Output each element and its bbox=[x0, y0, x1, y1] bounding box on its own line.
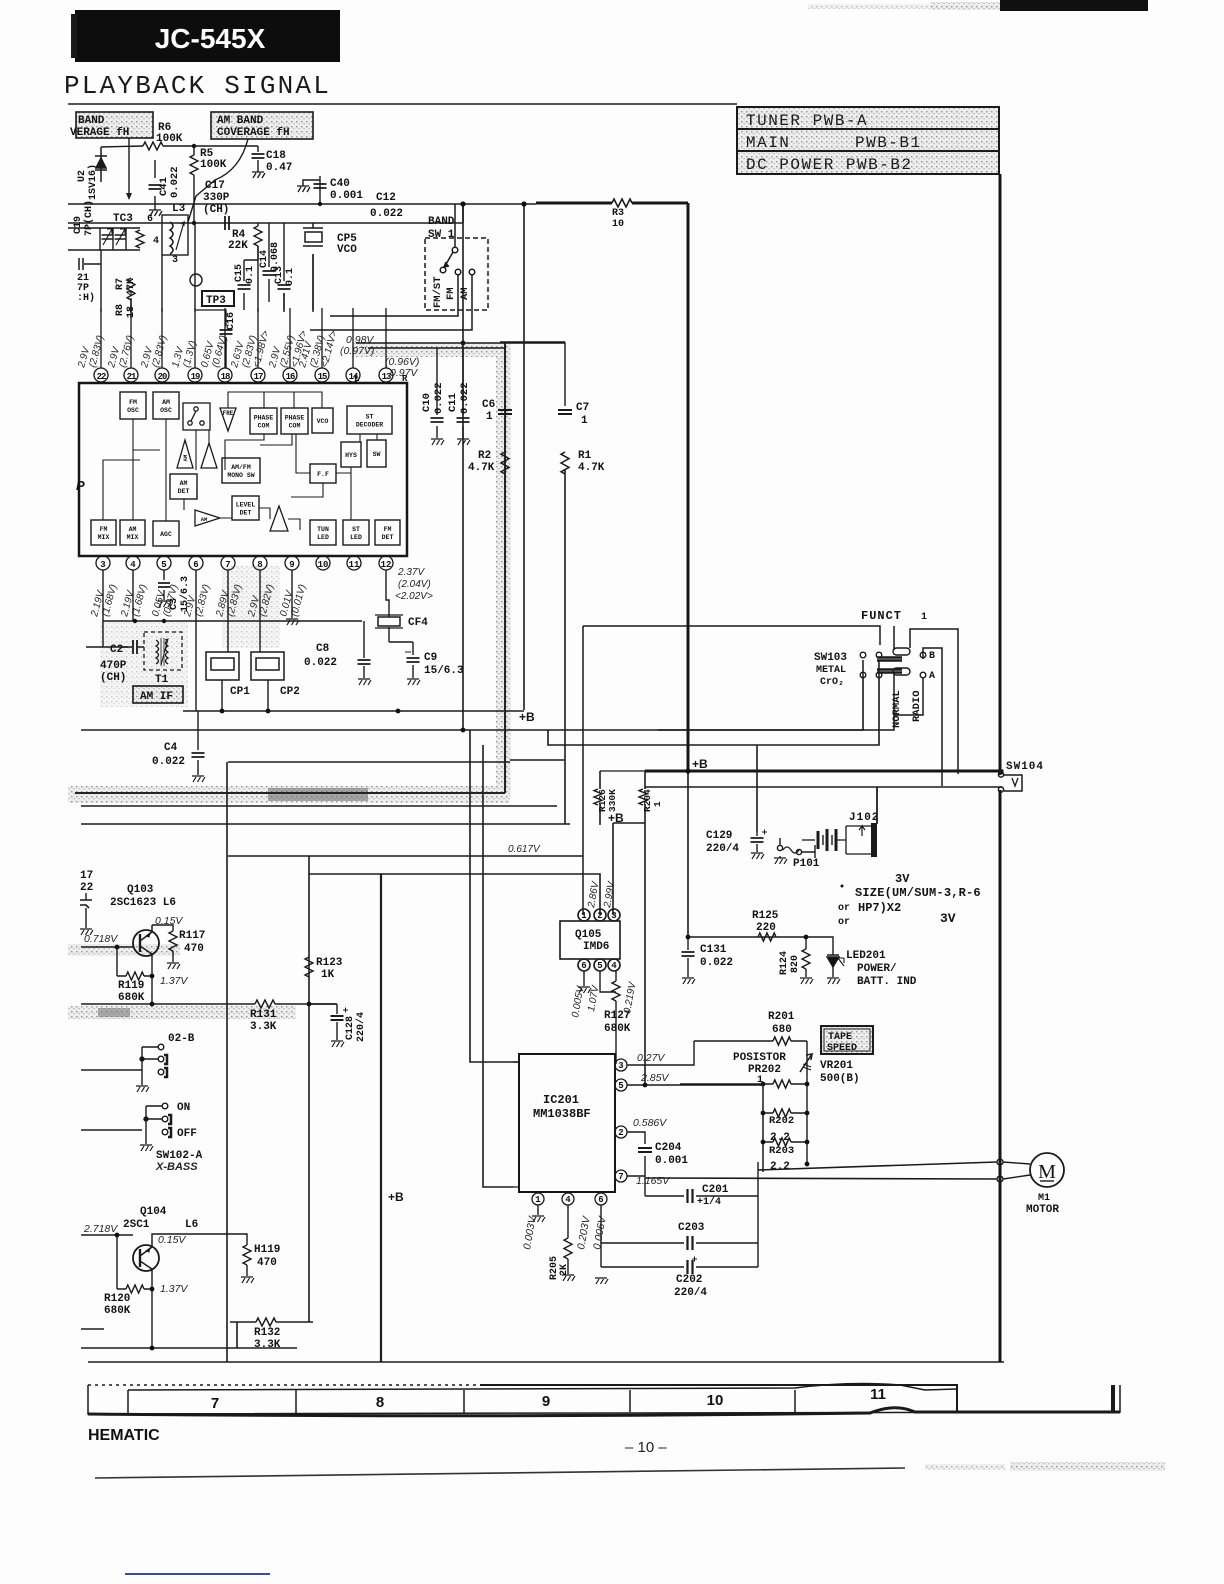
capacitor C3 15/6.3 bbox=[158, 570, 191, 612]
svg-text:4: 4 bbox=[611, 961, 617, 971]
IC pins bottom bbox=[96, 556, 393, 570]
svg-text:0.15V: 0.15V bbox=[158, 1234, 186, 1246]
svg-text:J102: J102 bbox=[849, 812, 879, 824]
svg-text:100K: 100K bbox=[156, 133, 183, 145]
svg-text:POWER/: POWER/ bbox=[857, 963, 897, 975]
capacitor C16 bbox=[196, 310, 237, 350]
svg-text:1: 1 bbox=[921, 612, 927, 623]
svg-text::H): :H) bbox=[77, 292, 95, 304]
svg-text:330P: 330P bbox=[203, 192, 230, 204]
resistor R202 2.2 bbox=[763, 1109, 807, 1144]
svg-text:Q103: Q103 bbox=[127, 884, 154, 896]
svg-text:15/6.3: 15/6.3 bbox=[424, 665, 464, 677]
svg-text:100K: 100K bbox=[200, 159, 227, 171]
svg-text:220/4: 220/4 bbox=[706, 843, 739, 855]
capacitor C41 0.022 bbox=[149, 160, 182, 216]
svg-text:680K: 680K bbox=[604, 1023, 631, 1035]
svg-text:470P: 470P bbox=[100, 660, 127, 672]
svg-text:PHASE: PHASE bbox=[285, 415, 305, 422]
svg-text:FM/ST: FM/ST bbox=[432, 276, 444, 308]
svg-text:C4: C4 bbox=[164, 742, 178, 754]
VCO block bbox=[312, 408, 333, 433]
pin9 ground bbox=[286, 570, 299, 625]
svg-text:16: 16 bbox=[286, 372, 295, 382]
svg-text:10: 10 bbox=[612, 219, 624, 230]
Q105 pin nets bbox=[578, 971, 616, 993]
svg-text:IC201: IC201 bbox=[543, 1093, 579, 1107]
svg-text:220: 220 bbox=[756, 922, 776, 934]
svg-text:C19: C19 bbox=[73, 216, 84, 234]
svg-text:19: 19 bbox=[191, 372, 200, 382]
highlight stipple bands bbox=[68, 343, 511, 1019]
svg-text:C13: C13 bbox=[274, 266, 285, 284]
svg-text:LED201: LED201 bbox=[846, 950, 886, 962]
svg-text:FRE: FRE bbox=[223, 410, 234, 417]
svg-text:1: 1 bbox=[486, 411, 493, 423]
svg-text:6: 6 bbox=[147, 214, 153, 225]
svg-text:4.7K: 4.7K bbox=[578, 462, 605, 474]
svg-text:3: 3 bbox=[100, 560, 105, 570]
svg-text:0.022: 0.022 bbox=[152, 756, 185, 768]
svg-text:9: 9 bbox=[542, 1393, 550, 1410]
svg-text:R132: R132 bbox=[254, 1327, 280, 1339]
svg-text:U2: U2 bbox=[77, 170, 88, 182]
svg-text:AM: AM bbox=[459, 287, 471, 300]
hybrid Q105 IMD6 bbox=[560, 909, 620, 971]
svg-text:0.97V: 0.97V bbox=[390, 367, 418, 379]
svg-text:TUNER PWB-A: TUNER PWB-A bbox=[746, 112, 868, 130]
svg-text:R1: R1 bbox=[578, 450, 592, 462]
svg-text:COM: COM bbox=[258, 423, 270, 430]
svg-text:A: A bbox=[929, 671, 935, 682]
svg-text:C202: C202 bbox=[676, 1274, 702, 1286]
svg-text:0.203V: 0.203V bbox=[575, 1215, 593, 1251]
ceramic filter CP1 bbox=[206, 652, 250, 698]
thick wires bbox=[536, 174, 1002, 1362]
resistor R118 470 bbox=[152, 1234, 280, 1283]
svg-text:470: 470 bbox=[257, 1257, 277, 1269]
svg-text:7: 7 bbox=[211, 1395, 219, 1412]
svg-text:LED: LED bbox=[350, 534, 362, 541]
svg-text:+B: +B bbox=[692, 757, 708, 771]
det triangle bbox=[270, 506, 288, 531]
svg-text:C9: C9 bbox=[424, 652, 437, 664]
svg-text:22: 22 bbox=[80, 882, 93, 894]
svg-text:BAND: BAND bbox=[428, 216, 455, 228]
AM IF tag bbox=[133, 686, 183, 703]
svg-text:R203: R203 bbox=[769, 1145, 794, 1157]
AM MIX block bbox=[120, 520, 145, 545]
svg-text:17: 17 bbox=[80, 870, 93, 882]
variable resistor VR201 500(B) bbox=[800, 1041, 860, 1164]
svg-text:L6: L6 bbox=[185, 1219, 198, 1231]
svg-text:8: 8 bbox=[257, 560, 262, 570]
svg-text:COVERAGE fH: COVERAGE fH bbox=[217, 127, 290, 139]
svg-text:R2: R2 bbox=[478, 450, 491, 462]
svg-text:Q105: Q105 bbox=[575, 929, 602, 941]
resistor R125 220 bbox=[752, 910, 779, 941]
svg-text:(2.76V): (2.76V) bbox=[117, 334, 136, 369]
svg-text:C201: C201 bbox=[702, 1184, 729, 1196]
svg-text:P: P bbox=[76, 478, 85, 493]
svg-text:3V: 3V bbox=[940, 911, 956, 926]
test point TP3 bbox=[190, 274, 234, 307]
capacitor C131 0.022 bbox=[682, 937, 734, 984]
svg-text:220/4: 220/4 bbox=[674, 1287, 707, 1299]
svg-text:8: 8 bbox=[376, 1394, 384, 1411]
svg-text:C8: C8 bbox=[316, 643, 330, 655]
IC internal wiring bbox=[103, 392, 377, 530]
plug P101 bbox=[774, 838, 820, 870]
AM/FM MONO SW block bbox=[222, 458, 260, 483]
resistor R205 2K bbox=[549, 1238, 572, 1280]
svg-text:BAND: BAND bbox=[78, 115, 105, 127]
svg-text:(0.97V): (0.97V) bbox=[340, 345, 374, 357]
svg-text:TP3: TP3 bbox=[206, 295, 226, 307]
diode D2 1SV16 bbox=[77, 147, 107, 200]
voltage row top (0.98V etc) bbox=[340, 334, 419, 379]
HYS block bbox=[341, 442, 361, 467]
svg-text:NORMAL: NORMAL bbox=[891, 690, 903, 728]
resistor R124 820 bbox=[779, 949, 813, 984]
svg-text:TAPE: TAPE bbox=[828, 1032, 852, 1043]
svg-text:22: 22 bbox=[97, 372, 106, 382]
capacitor C204 0.001 bbox=[638, 1142, 688, 1167]
svg-text:0.022: 0.022 bbox=[304, 657, 337, 669]
svg-text:HEMATIC: HEMATIC bbox=[88, 1427, 160, 1444]
svg-text:R204: R204 bbox=[642, 789, 653, 812]
svg-text:AGC: AGC bbox=[160, 531, 172, 538]
svg-text:5: 5 bbox=[161, 560, 166, 570]
svg-text:FUNCT: FUNCT bbox=[861, 609, 902, 623]
LED201 bbox=[827, 950, 917, 988]
resistor R131 3.3K bbox=[250, 1000, 277, 1033]
resistor R120 680K bbox=[104, 1235, 152, 1348]
resistor R5 100K bbox=[190, 146, 227, 223]
capacitor C128 220/4 bbox=[309, 1004, 367, 1047]
svg-text:AM: AM bbox=[182, 454, 189, 461]
resonator CF4 bbox=[375, 615, 428, 629]
ST LED block bbox=[343, 520, 369, 545]
svg-text:+B: +B bbox=[519, 710, 535, 724]
svg-text:C12: C12 bbox=[376, 192, 396, 204]
svg-text:SPEED: SPEED bbox=[827, 1043, 857, 1054]
wire to C131 node bbox=[688, 937, 833, 952]
svg-text:AM BAND: AM BAND bbox=[217, 115, 264, 127]
capacitor C201 1/4 bbox=[688, 1184, 729, 1208]
resistor R127 680K bbox=[604, 981, 631, 1064]
svg-text:VR201: VR201 bbox=[820, 1060, 853, 1072]
svg-text:VCO: VCO bbox=[317, 418, 329, 425]
svg-text:TUN: TUN bbox=[317, 526, 329, 533]
TUN LED block bbox=[310, 520, 336, 545]
svg-text:17: 17 bbox=[254, 372, 263, 382]
resistor R123 1K bbox=[305, 957, 343, 981]
svg-text:(CH): (CH) bbox=[203, 204, 229, 216]
svg-text:HP7)X2: HP7)X2 bbox=[858, 901, 901, 915]
svg-text:R120: R120 bbox=[104, 1293, 130, 1305]
svg-text:C128: C128 bbox=[345, 1016, 356, 1040]
svg-text:0.27V: 0.27V bbox=[637, 1052, 665, 1064]
svg-text:(1.3V): (1.3V) bbox=[181, 340, 199, 369]
svg-text:LEVEL: LEVEL bbox=[236, 502, 256, 509]
svg-text:4: 4 bbox=[565, 1195, 571, 1205]
voltage labels bottom row bbox=[89, 567, 433, 619]
svg-text:0.718V: 0.718V bbox=[84, 933, 118, 945]
svg-text:C14: C14 bbox=[259, 250, 270, 268]
F.F block bbox=[310, 464, 336, 483]
capacitors C10 C11 bbox=[421, 348, 471, 445]
svg-text:R117: R117 bbox=[179, 930, 205, 942]
blue pen mark bbox=[125, 1573, 270, 1575]
svg-text:C15: C15 bbox=[234, 264, 245, 282]
svg-text:1.37V: 1.37V bbox=[160, 1283, 188, 1295]
svg-text:OFF: OFF bbox=[177, 1128, 197, 1140]
svg-text:P101: P101 bbox=[793, 858, 820, 870]
highlight box dark border bbox=[75, 343, 505, 793]
svg-text:R201: R201 bbox=[768, 1011, 795, 1023]
resistor R119 680K bbox=[117, 947, 152, 1004]
capacitor C7 1 bbox=[356, 342, 589, 427]
svg-text:or: or bbox=[838, 903, 850, 914]
svg-text:SW 1: SW 1 bbox=[428, 229, 455, 241]
svg-text:6: 6 bbox=[193, 560, 198, 570]
svg-text:VCO: VCO bbox=[337, 244, 357, 256]
svg-text:1SV16): 1SV16) bbox=[87, 164, 99, 200]
svg-text:2: 2 bbox=[618, 1128, 623, 1138]
capacitor C4 0.022 bbox=[152, 711, 205, 782]
svg-text:MM1038BF: MM1038BF bbox=[533, 1107, 591, 1121]
svg-text:OSC: OSC bbox=[160, 407, 172, 414]
svg-text:0.003V: 0.003V bbox=[521, 1215, 539, 1251]
svg-text:1.165V: 1.165V bbox=[636, 1175, 670, 1187]
trimmer TC3 bbox=[100, 213, 144, 250]
svg-text:R123: R123 bbox=[316, 957, 343, 969]
svg-text:0.022: 0.022 bbox=[700, 957, 733, 969]
ceramic filter CP2 bbox=[251, 652, 300, 698]
capacitor C8 0.022 bbox=[304, 643, 371, 685]
svg-text:FM: FM bbox=[129, 399, 137, 406]
svg-text:ON: ON bbox=[177, 1102, 190, 1114]
svg-text:DC POWER PWB-B2: DC POWER PWB-B2 bbox=[746, 156, 913, 174]
svg-text:AM: AM bbox=[201, 516, 208, 523]
svg-text:13: 13 bbox=[382, 372, 391, 382]
svg-text:10: 10 bbox=[318, 560, 329, 570]
svg-text:20: 20 bbox=[158, 372, 167, 382]
AM IF amp triangle bbox=[195, 510, 220, 526]
AGC block bbox=[153, 521, 179, 546]
resistor R203 2.2 bbox=[763, 1138, 807, 1173]
svg-text:C204: C204 bbox=[655, 1142, 682, 1154]
svg-text:0.586V: 0.586V bbox=[633, 1117, 667, 1129]
svg-text:15: 15 bbox=[318, 372, 327, 382]
main wires bbox=[68, 104, 1004, 1362]
svg-text:0.1: 0.1 bbox=[285, 268, 296, 286]
IC201 voltage labels bbox=[521, 1052, 670, 1251]
resistor R1 4.7K bbox=[561, 450, 605, 474]
svg-text:JC-545X: JC-545X bbox=[155, 23, 266, 54]
svg-text:CF4: CF4 bbox=[408, 617, 428, 629]
svg-text:VERAGE fH: VERAGE fH bbox=[70, 127, 129, 139]
svg-text:680: 680 bbox=[772, 1024, 792, 1036]
svg-text:C16: C16 bbox=[226, 312, 237, 330]
svg-text:6: 6 bbox=[598, 1195, 603, 1205]
svg-text:C40: C40 bbox=[330, 178, 350, 190]
svg-text:4: 4 bbox=[153, 236, 159, 247]
osc switch block bbox=[183, 403, 210, 430]
capacitor C2 470P bbox=[100, 640, 144, 684]
ST DECODER block bbox=[347, 406, 392, 434]
switch SW102-A X-BASS bbox=[140, 1102, 203, 1173]
resistor R4 22K bbox=[228, 223, 262, 260]
svg-text:+B: +B bbox=[608, 811, 624, 825]
capacitor C18 0.47 bbox=[194, 146, 292, 178]
resistor R3 10 bbox=[612, 199, 632, 230]
svg-text:3: 3 bbox=[172, 255, 178, 266]
svg-text:C7: C7 bbox=[576, 402, 589, 414]
svg-text:22K: 22K bbox=[228, 240, 248, 252]
svg-text:F.F: F.F bbox=[317, 471, 329, 478]
PWB name table bbox=[737, 107, 999, 174]
resistor R126 330K bbox=[594, 771, 645, 812]
svg-text:MIX: MIX bbox=[127, 534, 139, 541]
PHASE COM 2 bbox=[281, 408, 308, 434]
svg-text:C2: C2 bbox=[110, 644, 123, 656]
svg-text:15/6.3: 15/6.3 bbox=[179, 576, 191, 612]
capacitor C21 7P stub bbox=[77, 258, 101, 304]
FM OSC block bbox=[120, 392, 146, 419]
wire column patches above IC bbox=[101, 223, 313, 368]
svg-text:5: 5 bbox=[618, 1081, 623, 1091]
svg-text:2.99V: 2.99V bbox=[602, 880, 618, 910]
resonator CP5 VCO bbox=[303, 223, 357, 310]
svg-text:TC3: TC3 bbox=[113, 213, 133, 225]
title block JC-545X bbox=[71, 10, 340, 62]
svg-text:METAL: METAL bbox=[816, 665, 846, 676]
svg-text:PR202: PR202 bbox=[748, 1064, 781, 1076]
svg-text:4.7K: 4.7K bbox=[468, 462, 495, 474]
svg-text:9: 9 bbox=[289, 560, 294, 570]
svg-text:0.005V: 0.005V bbox=[570, 984, 587, 1018]
FM MIX block bbox=[91, 520, 116, 545]
svg-text:PWB-B1: PWB-B1 bbox=[855, 134, 922, 152]
svg-text:2.718V: 2.718V bbox=[83, 1223, 118, 1235]
svg-text:M: M bbox=[1038, 1161, 1056, 1183]
svg-text:1: 1 bbox=[581, 911, 587, 921]
svg-text:0.1: 0.1 bbox=[245, 266, 256, 284]
svg-text:BATT. IND: BATT. IND bbox=[857, 976, 917, 988]
coil L3 bbox=[147, 203, 188, 266]
svg-text:0.001: 0.001 bbox=[330, 190, 363, 202]
svg-text:R127: R127 bbox=[604, 1010, 630, 1022]
svg-text:2K: 2K bbox=[559, 1264, 570, 1276]
svg-text:1.37V: 1.37V bbox=[160, 975, 188, 987]
svg-text:0.022: 0.022 bbox=[370, 208, 403, 220]
svg-text:0.617V: 0.617V bbox=[508, 844, 541, 855]
svg-text:HYS: HYS bbox=[345, 452, 357, 459]
FRE triangle bbox=[220, 408, 236, 431]
resistor R6 100K bbox=[101, 122, 194, 150]
voltage labels top row bbox=[76, 329, 340, 369]
svg-text:C3: C3 bbox=[169, 598, 180, 610]
svg-text:AM/FM: AM/FM bbox=[231, 464, 251, 471]
svg-text:PLAYBACK SIGNAL: PLAYBACK SIGNAL bbox=[64, 71, 331, 101]
svg-text:L3: L3 bbox=[172, 203, 186, 215]
IC201 MM1038BF bbox=[519, 1054, 615, 1192]
bottom ruler bar bbox=[88, 1384, 1120, 1416]
amp triangles bbox=[177, 440, 217, 468]
svg-text:MAIN: MAIN bbox=[746, 134, 790, 152]
svg-text:CrO₂: CrO₂ bbox=[820, 677, 844, 688]
svg-text:MOTOR: MOTOR bbox=[1026, 1204, 1059, 1216]
resistor R132 3.3K bbox=[254, 1318, 281, 1351]
capacitor C40 0.001 bbox=[297, 176, 363, 204]
svg-text:CP1: CP1 bbox=[230, 686, 250, 698]
svg-text:R125: R125 bbox=[752, 910, 779, 922]
svg-text:+B: +B bbox=[388, 1190, 404, 1204]
svg-text:T1: T1 bbox=[155, 674, 169, 686]
svg-text:FM: FM bbox=[445, 287, 457, 300]
svg-text:MIX: MIX bbox=[98, 534, 110, 541]
svg-text:ST: ST bbox=[366, 414, 374, 421]
svg-text:R119: R119 bbox=[118, 980, 144, 992]
svg-text:3.3K: 3.3K bbox=[254, 1339, 281, 1351]
svg-text:R131: R131 bbox=[250, 1009, 277, 1021]
PHASE COM 1 bbox=[250, 408, 277, 434]
svg-text:POSISTOR: POSISTOR bbox=[733, 1052, 786, 1064]
capacitor C6 1 bbox=[482, 399, 512, 423]
svg-text:Q104: Q104 bbox=[140, 1206, 167, 1218]
svg-text:12: 12 bbox=[381, 560, 392, 570]
svg-text:C11: C11 bbox=[447, 393, 459, 412]
svg-text:470: 470 bbox=[184, 943, 204, 955]
svg-text:0.006V: 0.006V bbox=[591, 1215, 609, 1251]
svg-text:R7: R7 bbox=[115, 278, 126, 290]
resistor R2 4.7K bbox=[468, 450, 509, 474]
scan fold line bottom bbox=[95, 1468, 905, 1478]
svg-text:820: 820 bbox=[790, 955, 801, 973]
IC pins top bbox=[94, 308, 393, 382]
svg-text:C17: C17 bbox=[205, 180, 225, 192]
capacitor C19 7P(CH) label bbox=[73, 200, 95, 236]
svg-text:02-B: 02-B bbox=[168, 1033, 195, 1045]
svg-text:11: 11 bbox=[349, 560, 360, 570]
svg-text:47K: 47K bbox=[126, 278, 137, 296]
svg-text:AM IF: AM IF bbox=[140, 691, 173, 703]
svg-text:H119: H119 bbox=[254, 1244, 280, 1256]
svg-text:– 10 –: – 10 – bbox=[625, 1439, 667, 1456]
svg-text:4: 4 bbox=[130, 560, 136, 570]
FUNCT box wires bbox=[583, 626, 958, 915]
svg-text:(2.83V): (2.83V) bbox=[150, 334, 169, 369]
svg-text:AM: AM bbox=[129, 526, 137, 533]
svg-text:1: 1 bbox=[652, 801, 663, 807]
svg-text:RADIO: RADIO bbox=[911, 690, 923, 722]
capacitor C9 15/6.3 bbox=[405, 652, 464, 685]
svg-text:C10: C10 bbox=[421, 393, 433, 412]
capacitor C202 220/4 bbox=[674, 1257, 707, 1300]
transformer T1 bbox=[144, 632, 182, 686]
svg-text:M1: M1 bbox=[1038, 1193, 1050, 1204]
svg-text:7: 7 bbox=[618, 1172, 623, 1182]
svg-text:0.022: 0.022 bbox=[459, 382, 471, 414]
svg-text:DET: DET bbox=[240, 510, 252, 517]
svg-text:7P(CH): 7P(CH) bbox=[83, 200, 95, 236]
svg-text:DET: DET bbox=[382, 534, 394, 541]
svg-text:+1/4: +1/4 bbox=[697, 1196, 721, 1208]
AM OSC block bbox=[153, 392, 179, 419]
svg-text:11: 11 bbox=[870, 1386, 886, 1403]
